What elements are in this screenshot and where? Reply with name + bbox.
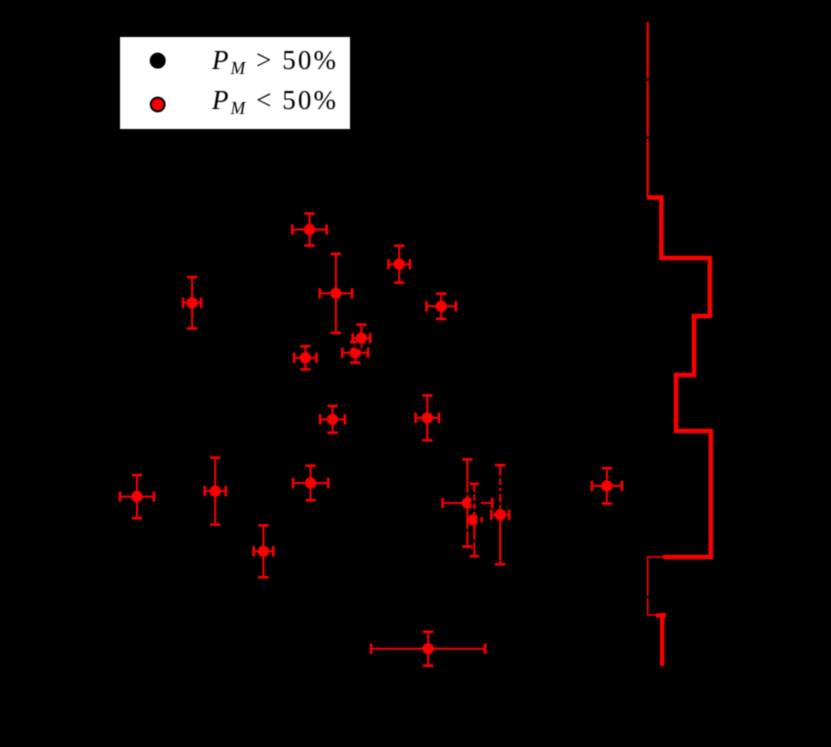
P16 right cap fragment xyxy=(480,517,482,523)
legend box xyxy=(119,36,351,130)
histogram thin baseline segment lower xyxy=(648,557,711,615)
histogram bottom bin xyxy=(656,615,664,666)
black cut on P16 marker right xyxy=(477,513,480,527)
tick notch overlays xyxy=(644,80,651,598)
data point P7 xyxy=(342,342,368,362)
data point P15 xyxy=(443,459,493,546)
dashed gaps on P17 upper error bar xyxy=(498,477,504,504)
black occluding marker over P15 right side xyxy=(471,498,481,508)
data point P11 xyxy=(120,475,154,518)
data point P5 xyxy=(427,294,456,319)
data point P17 xyxy=(491,465,509,564)
gaps on P16 vertical error bar xyxy=(472,493,477,541)
data point P12 xyxy=(205,458,226,525)
data point P2 xyxy=(389,246,410,283)
data point P16 (partially occluded) xyxy=(468,484,482,556)
data point P14 xyxy=(254,525,274,577)
histogram thin baseline segment top xyxy=(647,22,649,197)
data point P9 xyxy=(320,406,345,433)
data point P8 xyxy=(294,346,316,369)
data point P19 xyxy=(371,632,485,666)
legend marker red xyxy=(151,98,165,112)
data point P3 xyxy=(183,277,201,328)
legend marker black xyxy=(150,53,166,69)
data point P6 xyxy=(353,325,370,349)
gaps on P15 vertical error bar xyxy=(465,494,470,530)
data point P10 xyxy=(416,396,439,441)
data point P13 xyxy=(293,466,328,501)
black notch between P6 and P7 xyxy=(355,343,362,350)
histogram thick step outline xyxy=(647,198,711,558)
data point P18 xyxy=(592,468,622,503)
data point P1 xyxy=(292,214,326,246)
data point P4 xyxy=(320,254,352,333)
